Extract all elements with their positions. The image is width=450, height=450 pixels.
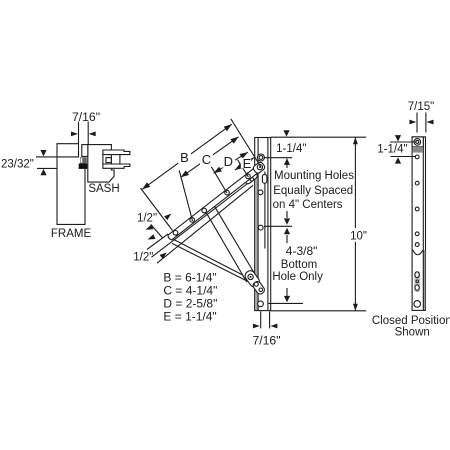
svg-text:Mounting Holes: Mounting Holes [274,170,354,182]
svg-text:7/15": 7/15" [408,101,434,113]
svg-text:SASH: SASH [88,183,119,195]
svg-text:B = 6-1/4": B = 6-1/4" [163,271,216,285]
10 inch dimension line [354,137,356,311]
dim 7/15 lines [417,113,426,133]
svg-text:C: C [202,152,211,167]
svg-text:D: D [224,154,233,169]
main hinge arm [168,167,259,240]
dim 1-1/4 arrows [283,130,289,136]
dimension line C [181,137,239,178]
dimension 23/32" arrows [40,150,46,156]
hole1 line [264,157,292,159]
label E [241,158,251,168]
sliding shoe [243,269,261,289]
sash left column [82,145,88,157]
dim 7/16 bottom lines [261,311,270,328]
sash bracket plate at track [242,170,258,185]
hinge butt dark block [79,164,88,169]
sash channel web and hole [103,155,120,164]
svg-text:E = 1-1/4": E = 1-1/4" [163,310,216,324]
frame cross-section [57,144,85,225]
svg-text:1/2": 1/2" [137,213,157,225]
sash link lines [172,239,249,280]
svg-text:Shown: Shown [395,327,430,339]
track bottom extension line [271,310,367,312]
sash channel bottom bar [103,164,130,168]
arrow to bottom hole [286,288,288,296]
arm pivot bracket at track [252,161,266,174]
closed bar arc detail [413,250,423,255]
svg-text:on 4" Centers: on 4" Centers [273,199,343,211]
sash bracket strip [152,181,254,264]
svg-text:1/2": 1/2" [133,251,153,263]
svg-text:1-1/4": 1-1/4" [276,143,306,155]
D extension line [211,167,227,193]
closed bar holes [415,155,419,159]
svg-text:C = 4-1/4": C = 4-1/4" [163,284,217,298]
svg-text:B: B [180,150,189,165]
dimension 23/32" extension lines [36,157,79,169]
dimension 7/16" arrows [71,132,78,137]
extension line from pivot [141,119,262,231]
track mounting holes [258,190,263,195]
E extension line [238,160,249,177]
label C [200,153,213,166]
support arm [205,206,254,281]
1/2 leader lines [147,224,168,249]
sash profile block [88,145,130,183]
svg-text:Bottom: Bottom [281,259,317,271]
1/2 arrows [164,214,171,221]
dimension 7/16" lines [79,122,89,171]
svg-text:4-3/8": 4-3/8" [286,244,318,258]
svg-text:23/32": 23/32" [1,158,34,170]
svg-text:Equally Spaced: Equally Spaced [273,185,353,197]
closed bar bottom hole [414,301,421,308]
svg-text:1-1/4": 1-1/4" [377,144,407,156]
label B [178,151,191,164]
track top pivot hole [257,154,264,161]
svg-text:Hole Only: Hole Only [272,271,323,283]
label 10" [349,228,366,242]
dimension line D [214,152,248,173]
svg-text:7/16": 7/16" [72,110,100,124]
hole3 line [264,225,292,227]
B extension line [141,188,173,231]
arm holes [173,231,178,236]
svg-text:Closed Position: Closed Position [372,315,450,327]
closed bar top cap [412,137,423,147]
arrows to hole3 line [286,211,288,243]
dim 1-1/4 right bar [390,142,416,157]
svg-text:10": 10" [350,230,367,242]
sash channel top bar [103,150,130,155]
dimension line B [142,124,254,189]
svg-text:E: E [243,156,252,171]
mounting track (open position) [255,138,271,311]
svg-text:7/16": 7/16" [252,334,280,348]
bottom hole line [268,302,303,304]
dimension line E [235,158,254,171]
closed bar outline [412,137,425,311]
track top extension line [264,137,366,311]
closed bar latch detail [414,271,420,292]
slot tab [262,175,267,184]
label D [222,155,235,168]
svg-text:FRAME: FRAME [51,228,92,240]
C extension line [179,170,192,221]
